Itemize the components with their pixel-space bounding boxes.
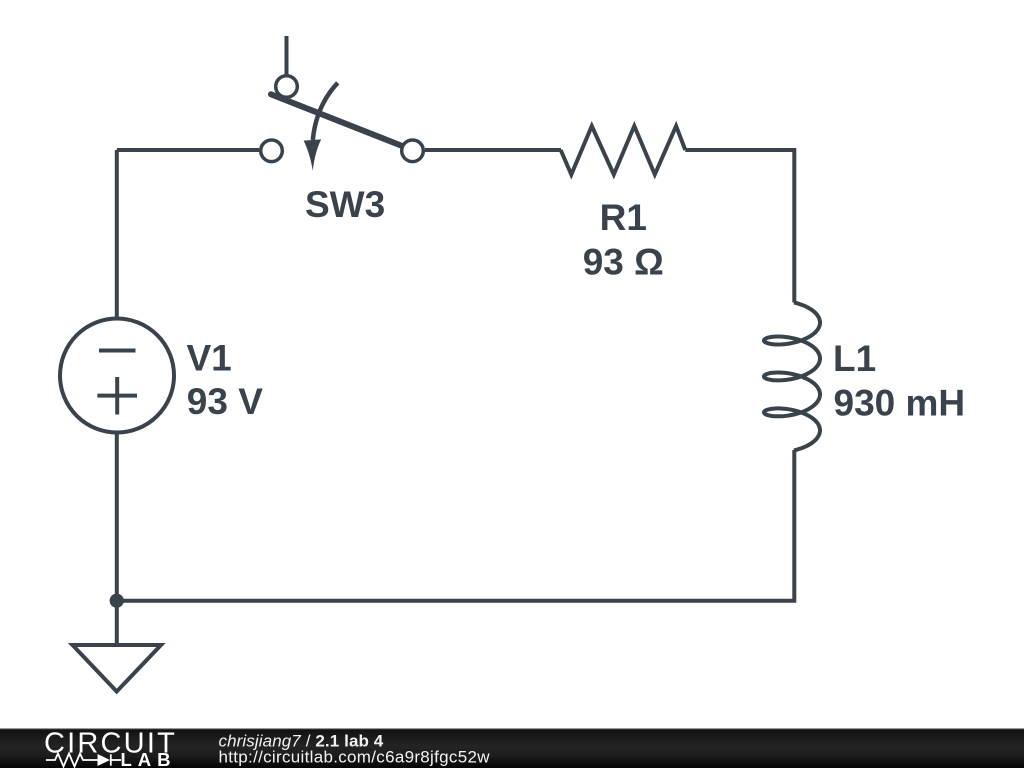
svg-text:93 Ω: 93 Ω bbox=[583, 242, 664, 283]
svg-text:930 mH: 930 mH bbox=[834, 383, 966, 424]
svg-text:V1: V1 bbox=[187, 337, 232, 378]
svg-text:LAB: LAB bbox=[121, 749, 177, 768]
svg-text:93 V: 93 V bbox=[187, 381, 263, 422]
svg-text:http://circuitlab.com/c6a9r8jf: http://circuitlab.com/c6a9r8jfgc52w bbox=[219, 747, 491, 766]
svg-text:R1: R1 bbox=[600, 197, 647, 238]
svg-text:SW3: SW3 bbox=[305, 184, 385, 225]
svg-text:L1: L1 bbox=[833, 338, 876, 379]
